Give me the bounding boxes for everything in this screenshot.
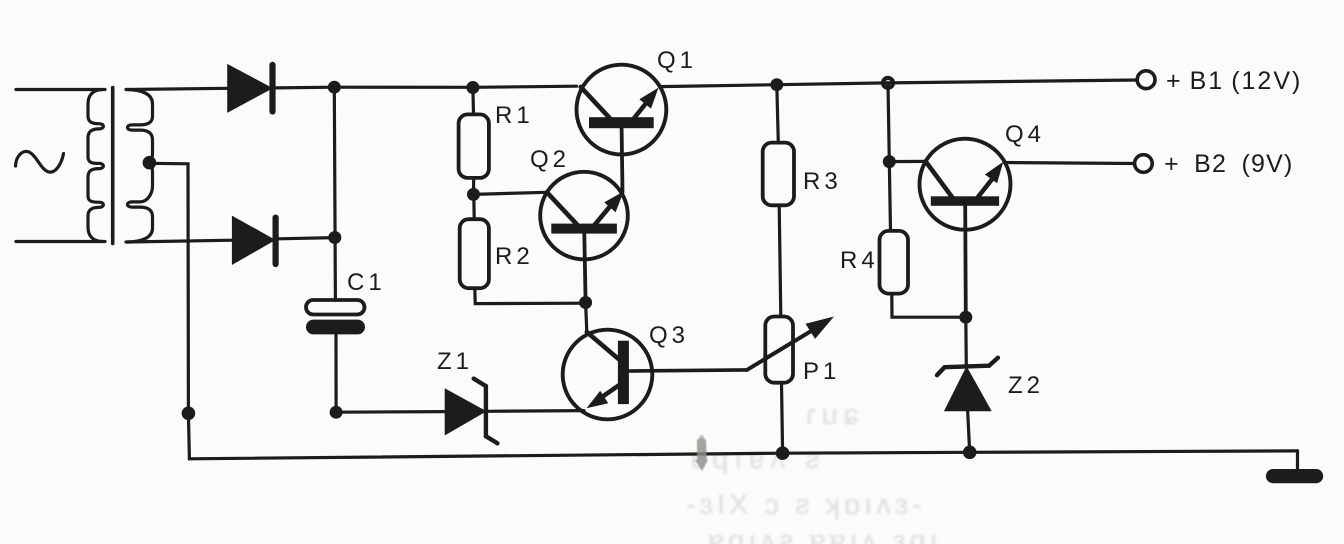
Q1 emitter stroke	[633, 102, 647, 120]
zener Z2 right hook	[989, 358, 998, 366]
node R4/Q4/Z2	[959, 311, 972, 324]
Q1 base lead down	[620, 128, 625, 192]
AC source squiggle	[16, 151, 64, 172]
node D2/C1 branch	[328, 231, 341, 244]
Q3 base bar (vertical)	[618, 341, 629, 404]
node C1/zener line	[330, 406, 343, 419]
svg-text:+ B2 (9V): + B2 (9V)	[1164, 150, 1294, 178]
node rail/R4 (ring)	[883, 78, 893, 88]
transformer primary top lead	[16, 88, 105, 91]
svg-text:-ɜIX ɔ ƨ ʞɒıʌɜ-: -ɜIX ɔ ƨ ʞɒıʌɜ-	[686, 489, 926, 521]
wire rail to ground	[1296, 451, 1299, 471]
Q4 base lead down	[963, 206, 967, 317]
node Z2/rail	[963, 446, 977, 460]
wire R3 top	[777, 85, 779, 143]
transformer core	[111, 88, 115, 244]
svg-text:Q1: Q1	[657, 47, 697, 74]
Q4 emitter arrowhead	[985, 162, 1003, 184]
zener Z1 wire in	[336, 410, 446, 414]
transformer secondary bottom lead	[126, 240, 234, 242]
terminal B2	[1135, 155, 1153, 173]
node R4/Q4 collector	[883, 155, 896, 168]
P1 wiper arrowhead	[806, 317, 835, 339]
wire R1 top	[471, 88, 475, 115]
wire node to Z2	[964, 317, 968, 366]
svg-text:P1: P1	[803, 358, 840, 385]
top rail	[334, 86, 576, 87]
svg-text:ɾuɕ: ɾuɕ	[806, 399, 864, 431]
wire R4 bottom to Z2 node	[892, 294, 966, 318]
node rail/D1/C1	[328, 81, 341, 94]
transformer primary bottom lead	[16, 240, 105, 243]
svg-text:+ B1 (12V): + B1 (12V)	[1166, 67, 1302, 95]
Q2 base lead down	[584, 234, 585, 303]
svg-text:ɐqıɐʌ ƨ: ɐqıɐʌ ƨ	[690, 443, 826, 475]
node R1/R2/Q2	[467, 188, 480, 201]
capacitor C1 bottom plate	[306, 320, 365, 335]
node P1/rail	[776, 446, 790, 460]
svg-text:Q3: Q3	[649, 322, 689, 349]
diode D2	[234, 218, 273, 262]
wire Q3 base bend to P1 wiper	[747, 331, 812, 370]
wire R3 bottom to P1 top	[779, 205, 781, 316]
svg-text:R3: R3	[803, 168, 842, 195]
resistor R1	[459, 114, 489, 177]
zener Z1 triangle	[446, 391, 483, 433]
transistor Q4 circle	[920, 139, 1011, 230]
wire R2 top	[472, 194, 476, 219]
resistor R2	[460, 219, 489, 288]
Q3 emitter arrowhead	[587, 391, 609, 409]
wire Q4 emitter to B2	[1004, 163, 1134, 164]
svg-text:R4: R4	[840, 247, 879, 274]
svg-text:R1: R1	[495, 102, 534, 129]
ground	[1266, 469, 1323, 483]
svg-text:ɐqıʌƨ ɐɐıʌ ɜqı: ɐqıʌƨ ɐɐıʌ ɜqı	[708, 525, 942, 544]
transistor Q3 circle	[563, 330, 653, 420]
capacitor C1 top plate	[306, 300, 365, 315]
Q4 base bar	[931, 196, 999, 206]
node rail/R1	[466, 81, 479, 94]
scan smudge artifact	[695, 435, 708, 471]
wire R2 bottom to Q3 node	[475, 288, 586, 303]
wire rectifier node to C1	[334, 87, 335, 300]
transformer primary winding	[88, 90, 103, 242]
zener Z2 left hook	[937, 367, 945, 375]
zener Z2 bar	[945, 366, 989, 368]
diode D1	[229, 67, 270, 111]
transformer secondary winding	[127, 90, 153, 243]
svg-text:R2: R2	[495, 243, 534, 270]
svg-text:Z2: Z2	[1008, 372, 1044, 399]
wire node to Q4 collector	[889, 160, 925, 163]
wire D2 to node	[279, 238, 335, 239]
wire R1 bottom to node	[472, 178, 475, 195]
Q3 base lead right	[629, 370, 747, 371]
transistor Q2 circle	[540, 172, 628, 260]
potentiometer P1 body	[765, 317, 793, 383]
Q2 emitter stroke	[595, 204, 613, 225]
transistor Q1 circle	[577, 65, 667, 155]
Q2 collector stroke	[547, 192, 577, 224]
center tap node	[143, 156, 157, 170]
wire Z2 to rail	[968, 410, 970, 453]
top rail right of Q1	[660, 80, 1138, 87]
wire C1 to zener line	[334, 334, 337, 412]
Q4 collector stroke	[926, 161, 952, 197]
wire center tap to left vertical	[149, 163, 188, 413]
bleed-through ghost text	[686, 399, 942, 544]
Q3 emitter stroke	[602, 386, 619, 398]
wire node to Q3 collector	[586, 303, 587, 333]
wire left vertical to bottom rail	[188, 413, 189, 459]
zener Z1 top hook	[474, 379, 486, 387]
zener Z2 triangle	[947, 370, 990, 410]
transformer secondary top lead	[126, 88, 229, 89]
wire Z1 to Q3 emitter	[488, 409, 584, 413]
zener Z1 bar	[484, 386, 488, 436]
Q2 emitter arrowhead	[604, 191, 624, 212]
wire D1 to node	[276, 86, 334, 90]
node rail/R3	[770, 78, 783, 91]
terminal B1	[1137, 71, 1155, 89]
wire P1 bottom to rail	[782, 383, 783, 454]
svg-text:Q4: Q4	[1005, 121, 1045, 148]
Q4 emitter stroke	[978, 178, 993, 197]
Q2 base bar	[551, 224, 617, 234]
Q1 emitter arrowhead	[639, 88, 658, 109]
bottom rail	[189, 451, 1297, 459]
node ct/zener line	[182, 407, 196, 421]
svg-text:Z1: Z1	[437, 348, 473, 375]
Q1 collector stroke	[581, 87, 610, 118]
wire node to Q2 base-collector entry	[474, 192, 547, 194]
svg-text:Q2: Q2	[530, 146, 570, 173]
Q3 collector stroke	[587, 332, 619, 359]
Q1 base bar	[589, 117, 654, 128]
zener Z1 bottom hook	[486, 436, 498, 443]
svg-text:C1: C1	[347, 269, 386, 296]
wire R4 branch down	[888, 83, 891, 231]
resistor R4	[880, 231, 909, 294]
node R2/Q2/Q3	[579, 296, 592, 309]
resistor R3	[763, 143, 794, 206]
